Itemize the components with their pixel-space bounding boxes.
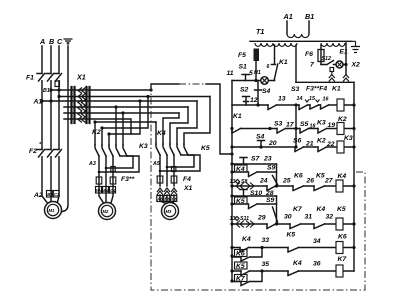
- junction: [107, 132, 110, 135]
- svg-text:C2: C2: [54, 192, 60, 197]
- contact K5 row6: [287, 232, 299, 253]
- thermal tick F4: [316, 100, 320, 103]
- junction: [230, 162, 233, 165]
- junction: [352, 145, 355, 148]
- svg-text:34: 34: [313, 238, 321, 245]
- junction: [230, 246, 233, 249]
- wire A1: [42, 100, 197, 102]
- motor M3: [162, 203, 179, 220]
- wire M2 drop 3: [108, 134, 110, 145]
- wire branch join 2: [276, 196, 278, 224]
- thermal relay F3 heater 1: [96, 177, 102, 184]
- wire pilot row: [232, 80, 275, 82]
- wire motor M3 lead 3: [173, 155, 175, 186]
- svg-text:S8: S8: [241, 179, 248, 185]
- component box C3: [111, 167, 115, 172]
- junction: [230, 279, 233, 282]
- wire aux row6: [64, 119, 131, 134]
- fuse-switch F2: [41, 150, 43, 156]
- fuse-switch F1: [41, 74, 43, 80]
- thermal relay F4 heater 1: [157, 176, 163, 183]
- svg-text:28: 28: [265, 190, 274, 197]
- svg-text:A6: A6: [156, 197, 163, 202]
- fuse F5: [238, 49, 259, 81]
- contact S8: [267, 186, 276, 191]
- wire K3 cross 2: [99, 156, 139, 172]
- junction: [230, 152, 233, 155]
- svg-text:S3: S3: [274, 121, 283, 128]
- svg-text:K5: K5: [236, 263, 245, 270]
- junction: [230, 184, 233, 187]
- wire M3 feed 2: [177, 101, 197, 144]
- contact K4 row7: [288, 260, 302, 276]
- svg-text:35: 35: [262, 261, 270, 268]
- svg-text:M1: M1: [49, 208, 55, 213]
- wire hold row1-row2: [295, 105, 297, 147]
- contact S6: [295, 147, 304, 152]
- junction: [159, 170, 162, 173]
- coil K2: [337, 116, 347, 135]
- contact S5: [300, 129, 309, 134]
- svg-text:13: 13: [278, 96, 286, 103]
- thermal contact F4: [321, 105, 329, 109]
- junction: [100, 126, 103, 129]
- svg-text:B1: B1: [43, 88, 50, 94]
- wire motor M3 stubs: [160, 195, 174, 204]
- wire motor M3 lead 2: [166, 155, 168, 186]
- svg-text:K1: K1: [233, 113, 242, 120]
- contactor K4/K5 contacts: [156, 144, 188, 155]
- contact S11: [267, 224, 276, 229]
- wire motor M2 lead 1: [99, 156, 104, 203]
- wire row4: [232, 185, 354, 187]
- svg-text:A2: A2: [33, 192, 43, 199]
- svg-text:F6: F6: [305, 51, 313, 58]
- junction: [275, 222, 278, 225]
- junction: [294, 103, 297, 106]
- wire phase B: [50, 46, 52, 202]
- svg-text:11: 11: [227, 70, 234, 77]
- svg-text:30: 30: [284, 214, 292, 221]
- junction: [230, 127, 233, 130]
- wire motor M2 lead 3: [111, 156, 113, 203]
- svg-text:K4: K4: [317, 206, 326, 213]
- svg-text:K7: K7: [293, 206, 303, 213]
- svg-text:F2: F2: [29, 148, 37, 155]
- contact S3 row1: [299, 105, 308, 110]
- connector arrows row4: [236, 183, 254, 190]
- contact S9 upper: [267, 165, 278, 185]
- switch S1: [239, 64, 250, 81]
- wire K5 cross 2: [160, 155, 200, 171]
- coil K1: [337, 99, 344, 111]
- contact 13: [268, 105, 277, 110]
- svg-text:X1: X1: [183, 185, 193, 192]
- node B2 C2: [47, 191, 61, 198]
- junction: [57, 88, 60, 91]
- svg-text:26: 26: [306, 178, 315, 185]
- svg-text:B4: B4: [103, 188, 109, 193]
- transformer T1 primary: [287, 34, 309, 38]
- svg-text:14: 14: [297, 96, 303, 102]
- thermal tick F3: [305, 100, 309, 103]
- junction: [98, 171, 101, 174]
- contact K6 row4: [293, 173, 304, 191]
- coil K5: [336, 206, 346, 230]
- diamond S11: [235, 217, 239, 221]
- svg-text:S5: S5: [300, 121, 309, 128]
- svg-text:S1: S1: [239, 64, 248, 71]
- junction: [230, 170, 233, 173]
- contact K5 row7: [235, 262, 250, 276]
- svg-text:X1: X1: [76, 73, 86, 82]
- junction: [352, 127, 355, 130]
- node W4 B4 C4: [96, 187, 117, 194]
- svg-text:17: 17: [286, 122, 295, 129]
- svg-text:K4: K4: [157, 130, 166, 137]
- wire branch join 1: [276, 164, 278, 186]
- svg-text:F3**: F3**: [121, 176, 135, 183]
- wire phase C: [58, 46, 60, 202]
- svg-text:W4: W4: [96, 188, 103, 193]
- svg-text:S9: S9: [267, 165, 276, 172]
- wire left rail: [231, 81, 233, 282]
- panel boundary left: [151, 84, 365, 290]
- motor M1: [45, 202, 62, 219]
- lamp E1: [336, 49, 348, 69]
- junction: [294, 127, 297, 130]
- junction: [352, 222, 355, 225]
- svg-text:27: 27: [324, 178, 334, 185]
- contact K3 row2: [318, 129, 327, 134]
- wire M2 drop 2: [101, 128, 103, 145]
- svg-text:31: 31: [305, 214, 313, 221]
- svg-text:12: 12: [250, 97, 258, 104]
- junction: [105, 167, 108, 170]
- svg-text:15: 15: [309, 96, 316, 102]
- contact K4 branch: [232, 165, 277, 177]
- wire C tap: [59, 96, 210, 98]
- wire row2: [241, 128, 355, 130]
- junction X2: [344, 63, 347, 66]
- svg-text:X2: X2: [351, 62, 361, 69]
- coil K7: [336, 256, 347, 277]
- svg-text:B: B: [49, 37, 54, 46]
- svg-text:K6: K6: [338, 234, 347, 241]
- switch S12: [321, 56, 336, 65]
- svg-text:K2: K2: [92, 129, 101, 136]
- svg-text:A1: A1: [283, 12, 293, 21]
- svg-text:K4: K4: [293, 260, 302, 267]
- junction: [230, 269, 233, 272]
- coil K3: [337, 135, 353, 153]
- wire row7: [232, 270, 354, 272]
- svg-text:K5: K5: [316, 173, 325, 180]
- svg-text:A3: A3: [88, 161, 96, 167]
- contact K6 sub: [232, 248, 262, 262]
- wire panel top: [296, 81, 354, 83]
- svg-text:F1: F1: [26, 75, 34, 82]
- svg-text:K5: K5: [201, 145, 210, 152]
- svg-text:K3: K3: [344, 135, 353, 142]
- wire aux row4: [64, 106, 188, 108]
- svg-text:S3: S3: [291, 86, 300, 93]
- svg-text:32: 32: [326, 214, 334, 221]
- wire lamp to X2: [343, 43, 346, 74]
- svg-text:B2: B2: [47, 192, 53, 197]
- svg-text:24: 24: [259, 178, 268, 185]
- svg-text:19: 19: [328, 122, 336, 129]
- junction: [259, 145, 262, 148]
- svg-text:K1: K1: [279, 59, 288, 66]
- junction: [230, 202, 233, 205]
- wire A1 drop: [286, 21, 288, 34]
- wire motor M2 lead 2: [105, 156, 107, 203]
- junction: [352, 246, 355, 249]
- svg-text:6: 6: [267, 64, 270, 70]
- wire phase A: [42, 46, 47, 203]
- svg-text:22: 22: [326, 141, 335, 148]
- wire aux row5: [64, 112, 179, 114]
- junction: [352, 184, 355, 187]
- svg-text:F3**F4: F3**F4: [306, 86, 327, 93]
- diamond S8: [236, 180, 240, 184]
- switch S10 branch: [232, 190, 277, 197]
- component box C5: [172, 167, 176, 172]
- lamp pedestal: [330, 68, 334, 75]
- wire M2 cross b: [102, 97, 148, 129]
- component box on C: [55, 81, 60, 87]
- wire secondary right stub: [295, 45, 297, 82]
- junction: [49, 88, 52, 91]
- contact K1 pilot: [272, 45, 288, 81]
- svg-text:S10: S10: [250, 190, 262, 197]
- svg-text:33: 33: [262, 237, 270, 244]
- junction: [49, 99, 52, 102]
- svg-text:C: C: [57, 37, 63, 46]
- junction: [230, 222, 233, 225]
- svg-text:M2: M2: [103, 209, 109, 214]
- switch S7 branch: [232, 158, 277, 165]
- svg-text:16: 16: [323, 97, 329, 103]
- wire M2 drop 1: [94, 122, 96, 145]
- junction: [93, 120, 96, 123]
- svg-text:K5: K5: [287, 232, 296, 239]
- svg-text:B6: B6: [165, 197, 171, 202]
- contactor K2/K3 contacts: [95, 145, 127, 156]
- wire M2 cross a: [95, 121, 156, 123]
- svg-text:K6: K6: [294, 173, 303, 180]
- wire M3 feed 6: [155, 122, 157, 144]
- connector X2 chevrons left: [329, 75, 335, 82]
- svg-text:S9: S9: [266, 197, 275, 204]
- svg-text:K5: K5: [337, 206, 346, 213]
- transformer T1 secondary left: [255, 43, 297, 46]
- contact K5 branch: [232, 197, 277, 209]
- svg-text:T1: T1: [256, 27, 264, 36]
- wire M2 drop 5: [122, 113, 124, 145]
- wire ground line: [63, 47, 69, 212]
- svg-text:K3: K3: [317, 120, 326, 127]
- junction: [149, 88, 152, 91]
- svg-text:36: 36: [313, 261, 321, 268]
- junction: [138, 99, 141, 102]
- wire M3 feed 1: [184, 97, 210, 145]
- junction: [260, 246, 263, 249]
- motor M2: [99, 203, 116, 220]
- junction: [230, 194, 233, 197]
- svg-text:K1: K1: [332, 86, 341, 93]
- junction: [166, 166, 169, 169]
- transformer T1 core line: [250, 40, 351, 42]
- thermal contact F3: [310, 105, 319, 109]
- wire B1 drop: [308, 21, 310, 34]
- svg-text:K2: K2: [317, 138, 326, 145]
- junction: [230, 145, 233, 148]
- wire row5: [232, 223, 354, 225]
- fuse F6: [305, 45, 324, 65]
- svg-text:S6: S6: [293, 138, 302, 145]
- node A6 B6 C6: [156, 196, 177, 202]
- switch S2: [243, 97, 250, 106]
- svg-text:F4: F4: [183, 176, 191, 183]
- junction: [146, 95, 149, 98]
- svg-text:S12: S12: [322, 56, 331, 62]
- svg-text:C4: C4: [110, 188, 116, 193]
- wire K5 cross 1: [167, 155, 194, 167]
- junction: [40, 99, 43, 102]
- junction: [275, 184, 278, 187]
- contact K7 sub: [232, 271, 262, 286]
- svg-text:K3: K3: [139, 143, 148, 150]
- svg-text:E1: E1: [340, 49, 349, 56]
- svg-text:5: 5: [249, 70, 253, 77]
- svg-text:S2: S2: [240, 87, 249, 94]
- ground at transformer: [351, 41, 360, 52]
- svg-text:S4: S4: [256, 134, 265, 141]
- svg-text:13: 13: [230, 179, 236, 185]
- svg-text:20: 20: [268, 140, 277, 147]
- svg-text:K7: K7: [338, 256, 348, 263]
- svg-text:A5: A5: [152, 161, 161, 167]
- wire M3 feed 4: [163, 113, 179, 144]
- svg-text:F5: F5: [238, 52, 246, 59]
- contact K2 row3: [318, 147, 327, 152]
- wire row1: [232, 104, 354, 106]
- switch S4 row3: [258, 141, 265, 148]
- wire row3: [232, 146, 354, 148]
- junction: [256, 103, 259, 106]
- contact K5 row4: [314, 173, 325, 191]
- terminal block X1: [72, 73, 90, 124]
- wire K3 cross 1: [106, 156, 133, 168]
- connector X2 chevrons right: [343, 75, 349, 82]
- wire B1: [51, 89, 151, 91]
- svg-text:25: 25: [282, 178, 291, 185]
- svg-text:H1: H1: [254, 70, 261, 76]
- svg-text:B1: B1: [305, 12, 314, 21]
- switch S4 drop: [255, 81, 271, 105]
- contact K7 row5: [290, 206, 303, 229]
- connector arrows row5: [236, 221, 254, 228]
- svg-text:18: 18: [310, 124, 316, 130]
- contact K1 row2: [232, 113, 242, 133]
- wire right rail: [353, 82, 355, 271]
- wire motor M3 lead 1: [159, 155, 161, 186]
- svg-text:S11: S11: [240, 216, 249, 222]
- coil K4: [336, 173, 346, 192]
- transformer T1 secondary right: [321, 43, 345, 46]
- wire row6: [232, 247, 354, 249]
- svg-text:K4: K4: [242, 236, 251, 243]
- junction: [352, 103, 355, 106]
- ground: [64, 39, 73, 47]
- svg-text:21: 21: [305, 141, 314, 148]
- thermal relay F4 heater 2: [171, 176, 177, 183]
- svg-text:K4: K4: [338, 173, 347, 180]
- svg-text:A: A: [39, 37, 45, 46]
- contact S9 lower: [266, 197, 278, 222]
- contact S3 row2: [277, 129, 286, 134]
- junction: [114, 105, 117, 108]
- svg-text:23: 23: [263, 156, 272, 163]
- wire M2 cross c: [109, 101, 140, 134]
- junction: [230, 254, 233, 257]
- svg-text:C6: C6: [172, 197, 178, 202]
- thermal relay F3 heater 2: [110, 177, 116, 184]
- coil K6: [336, 234, 347, 254]
- svg-text:S7: S7: [251, 156, 261, 163]
- junction node5: [254, 79, 257, 82]
- svg-text:13: 13: [230, 216, 236, 222]
- contact K4 row5: [314, 206, 325, 229]
- contact K4 row6: [240, 236, 251, 252]
- junction: [121, 111, 124, 114]
- wire M3 feed 3: [170, 107, 188, 144]
- wire control feed: [151, 84, 179, 90]
- svg-text:29: 29: [257, 215, 266, 222]
- junction: [268, 127, 271, 130]
- svg-text:S4: S4: [262, 88, 271, 95]
- svg-text:M3: M3: [166, 209, 172, 214]
- connector X1 motor chevrons: [157, 188, 177, 195]
- junction: [57, 95, 60, 98]
- junction: [260, 269, 263, 272]
- wire M2 drop 4: [115, 107, 117, 145]
- lamp H1: [254, 70, 268, 84]
